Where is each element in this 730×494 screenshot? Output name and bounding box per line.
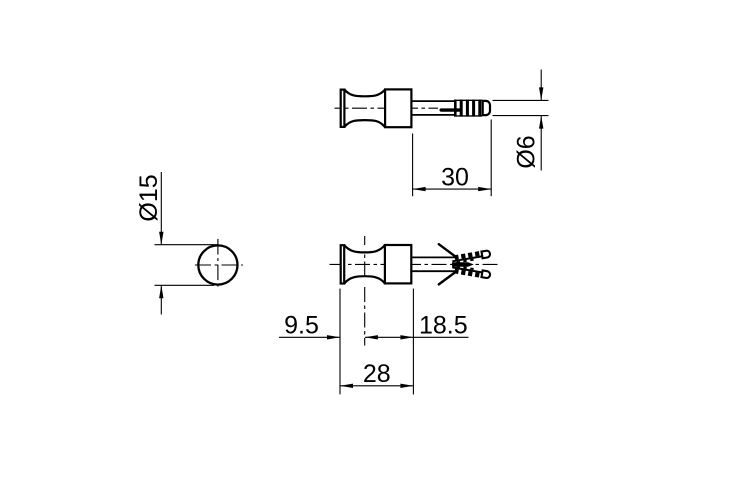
svg-text:18.5: 18.5 — [419, 312, 468, 340]
svg-text:30: 30 — [441, 164, 469, 192]
svg-text:Ø15: Ø15 — [135, 174, 163, 221]
svg-text:9.5: 9.5 — [284, 312, 319, 340]
svg-text:Ø6: Ø6 — [513, 135, 541, 168]
svg-text:28: 28 — [363, 360, 391, 388]
